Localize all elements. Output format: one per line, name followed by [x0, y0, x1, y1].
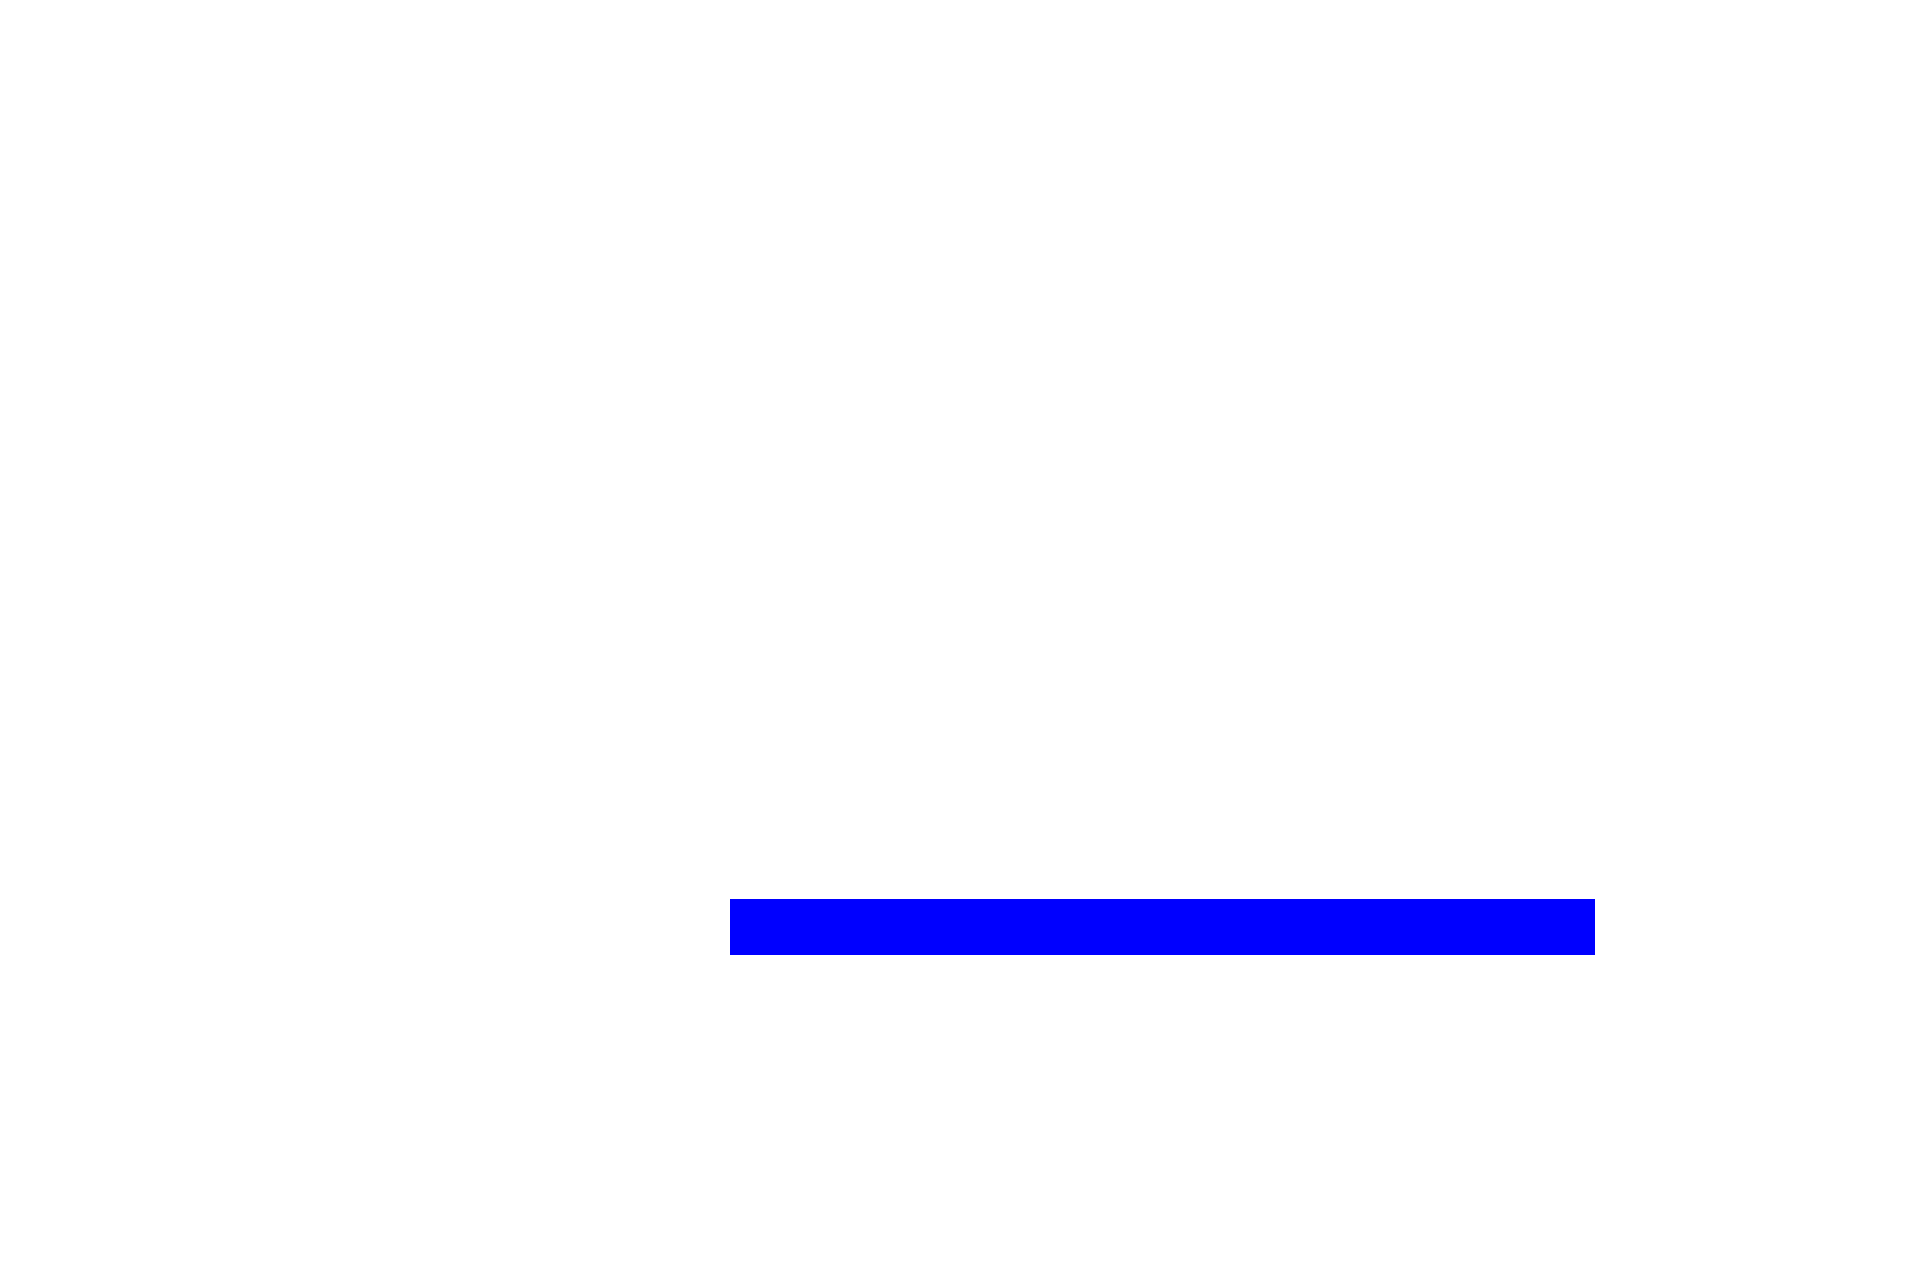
- blue bar: [730, 899, 1595, 955]
